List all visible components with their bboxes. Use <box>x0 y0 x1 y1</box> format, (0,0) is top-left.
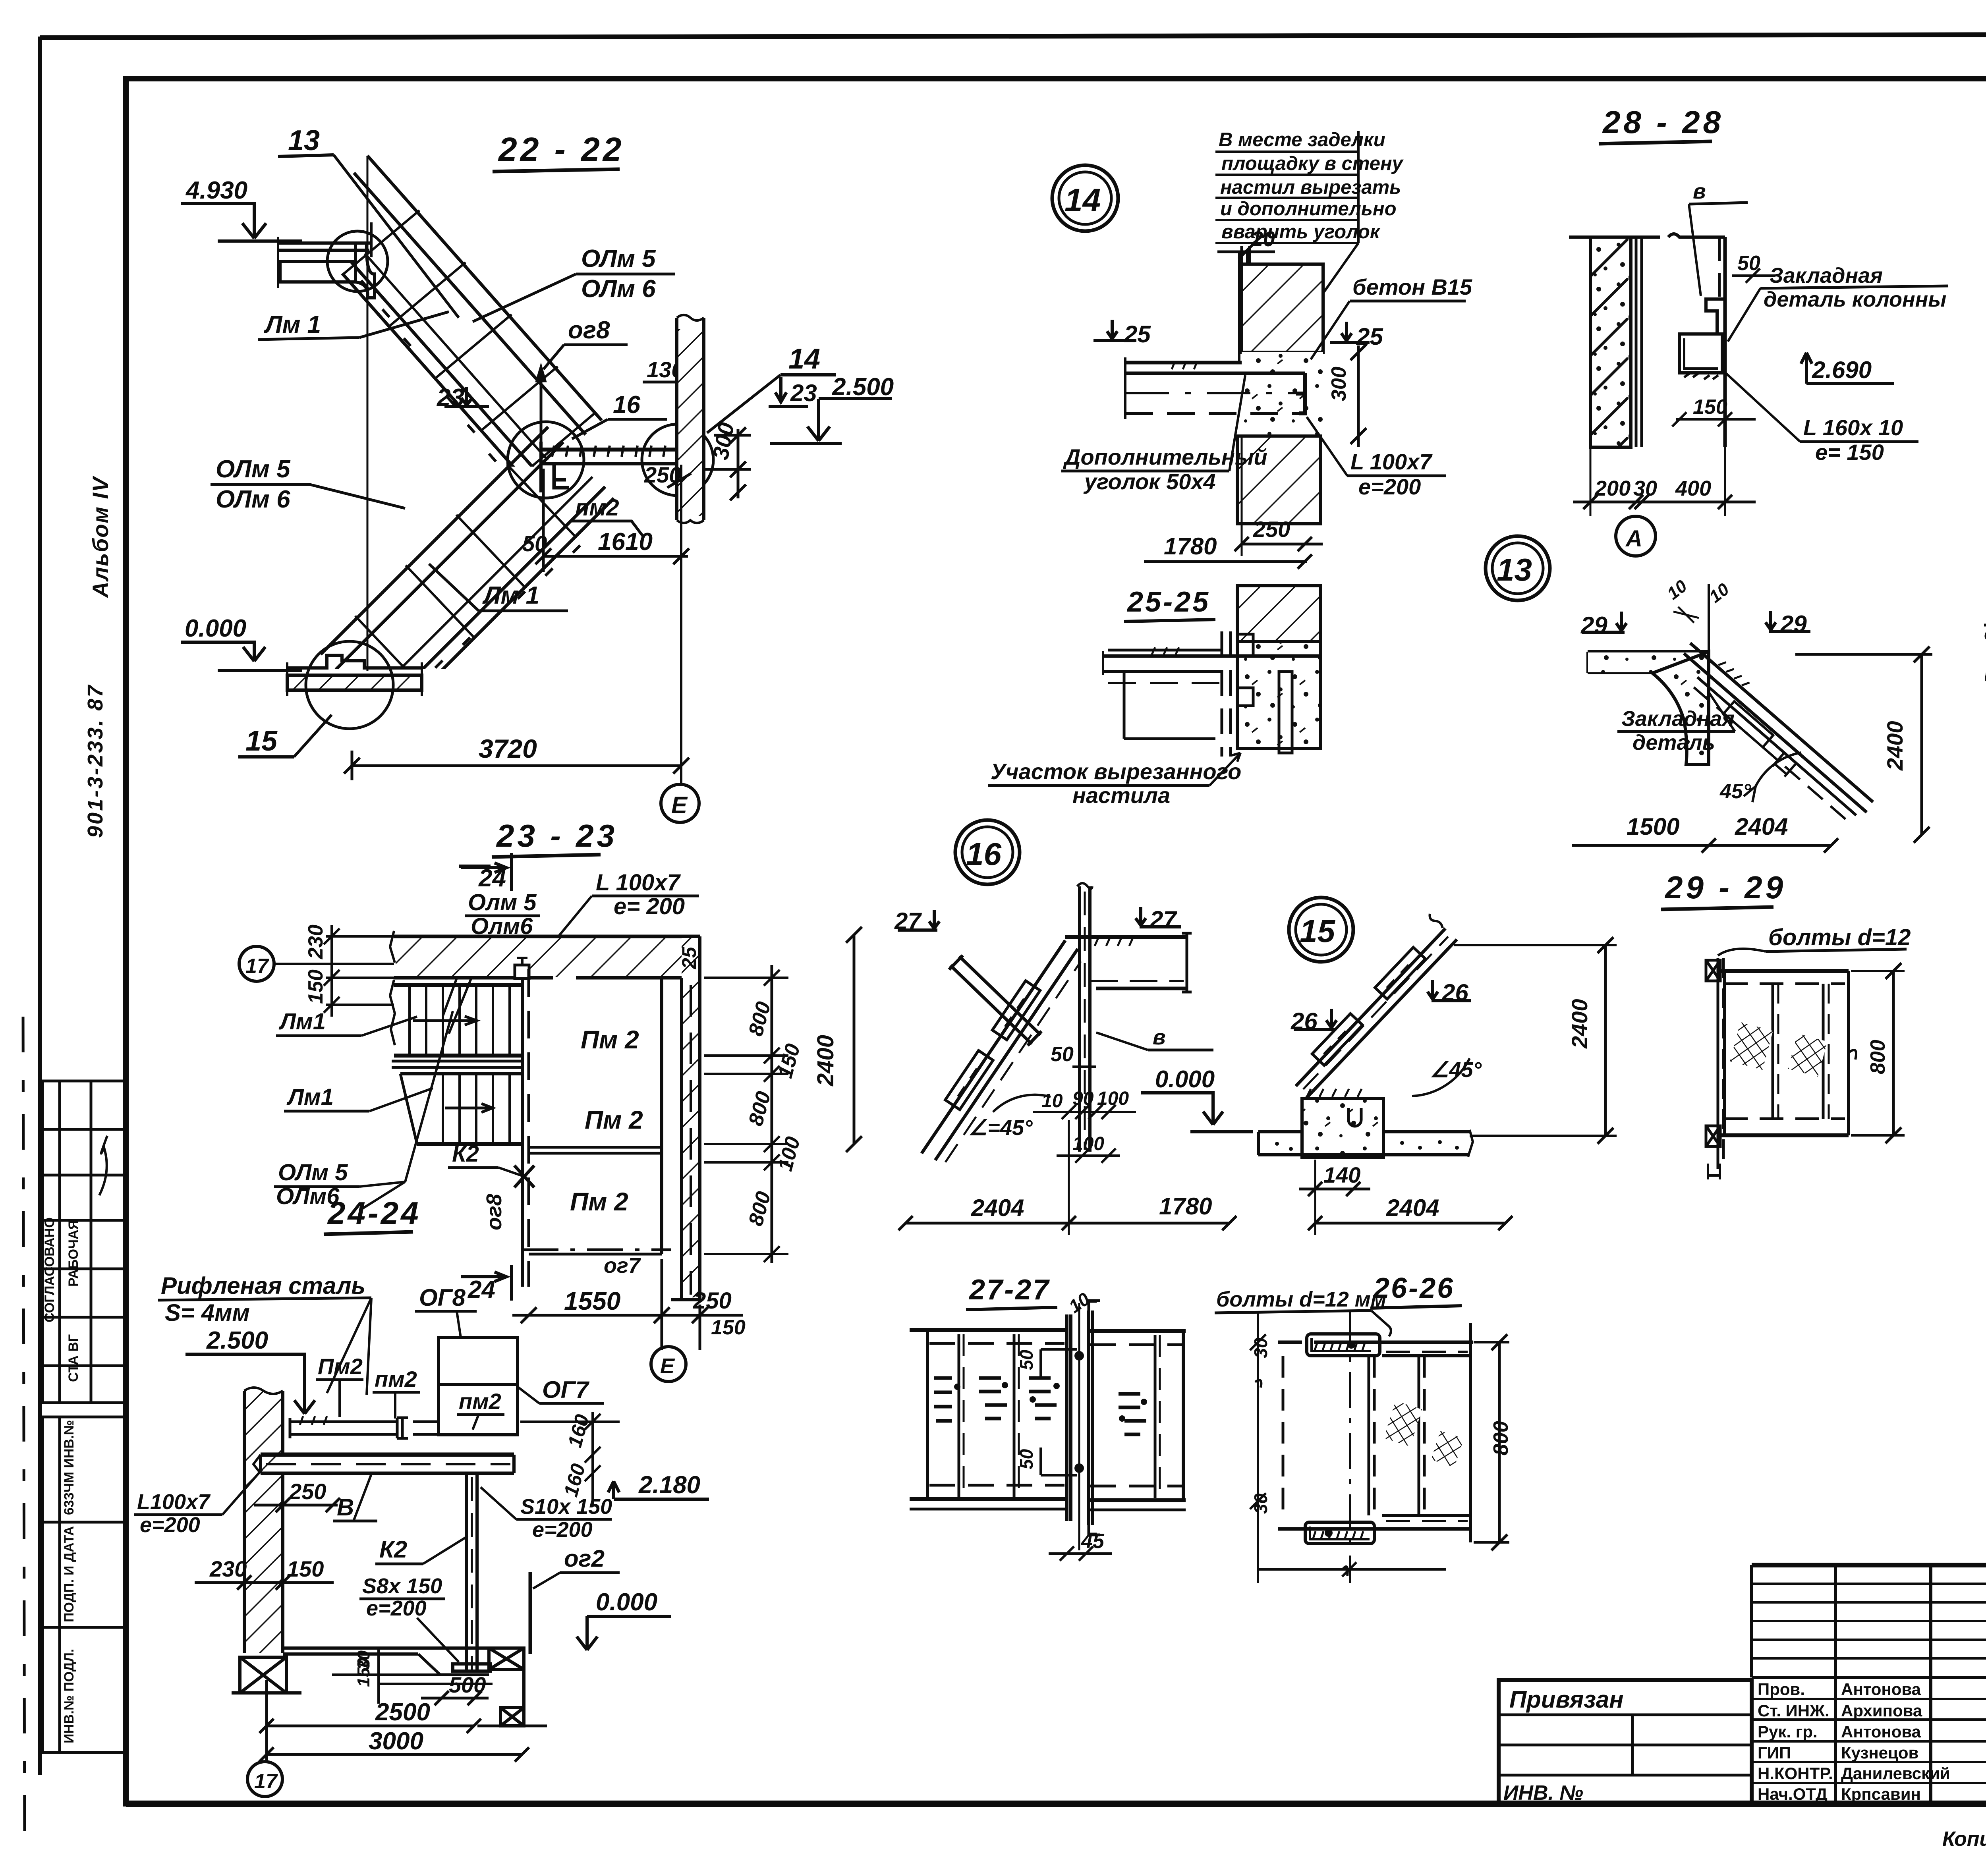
svg-text:СТА ВГ: СТА ВГ <box>66 1334 81 1382</box>
names table rows <box>1752 1676 1986 1679</box>
left panel <box>910 1330 1068 1509</box>
wall strip: hatch top, concrete below <box>1237 586 1321 641</box>
svg-text:1780: 1780 <box>1159 1193 1212 1220</box>
main beam <box>253 1455 514 1473</box>
diagonal stair stringer <box>913 934 1086 1167</box>
node circle 14 <box>1052 165 1118 231</box>
slot clusters <box>934 1375 1146 1434</box>
svg-text:L 160х 10: L 160х 10 <box>1803 415 1903 440</box>
diagonal stringer <box>1279 913 1457 1098</box>
svg-text:1780: 1780 <box>1164 533 1217 560</box>
svg-text:ОЛм 5: ОЛм 5 <box>216 455 291 483</box>
svg-text:30: 30 <box>1250 1493 1271 1514</box>
svg-text:Е: Е <box>671 792 688 818</box>
svg-text:250: 250 <box>1253 517 1290 542</box>
svg-text:болты d=12: болты d=12 <box>1768 924 1911 950</box>
svg-text:140: 140 <box>1323 1162 1360 1187</box>
top beam lines <box>1278 1323 1473 1542</box>
middle double verticals <box>1067 1301 1100 1535</box>
svg-text:площадку в стену: площадку в стену <box>1221 153 1404 174</box>
svg-text:и залить бетоном: и залить бетоном <box>1984 665 1986 686</box>
svg-text:23: 23 <box>790 380 817 406</box>
mid landing lines <box>392 1060 523 1063</box>
note text <box>1984 603 1986 706</box>
svg-text:45: 45 <box>1081 1530 1105 1553</box>
svg-text:Е: Е <box>660 1354 675 1378</box>
svg-text:100: 100 <box>1072 1133 1104 1154</box>
svg-text:Лм 1: Лм 1 <box>482 582 539 609</box>
svg-text:е=200: е=200 <box>532 1518 593 1542</box>
svg-text:В месте заделки: В месте заделки <box>1219 129 1385 151</box>
left margin stamp table upper <box>43 1081 126 1403</box>
floor slab <box>1258 1130 1473 1157</box>
svg-text:50: 50 <box>1016 1349 1037 1370</box>
left margin stamp table lower <box>43 1417 126 1752</box>
svg-text:S10х 150: S10х 150 <box>520 1495 612 1519</box>
svg-text:ОЛм 5: ОЛм 5 <box>581 245 656 272</box>
svg-text:2404: 2404 <box>1386 1195 1439 1221</box>
svg-text:Лм 1: Лм 1 <box>264 311 321 338</box>
svg-text:Пм 2: Пм 2 <box>585 1106 643 1134</box>
svg-text:ОГ7: ОГ7 <box>542 1376 589 1403</box>
svg-text:пм2: пм2 <box>459 1389 501 1414</box>
svg-text:ОЛм 5: ОЛм 5 <box>278 1160 348 1185</box>
svg-text:ограждения прос-: ограждения прос- <box>1984 623 1986 645</box>
axis circle E bottom <box>651 1347 686 1382</box>
svg-text:Дополнительный: Дополнительный <box>1063 444 1267 469</box>
svg-text:е= 200: е= 200 <box>614 894 685 919</box>
svg-text:L 100х7: L 100х7 <box>1350 449 1433 474</box>
cut line vertical through apex <box>367 156 369 671</box>
base block <box>1302 1098 1383 1157</box>
svg-text:13: 13 <box>1497 552 1532 587</box>
svg-text:Данилевский: Данилевский <box>1841 1764 1950 1783</box>
svg-text:2.180: 2.180 <box>638 1471 700 1499</box>
bottom slab <box>283 1648 525 1675</box>
upper thin-row table x4410-5137 <box>1752 1583 1986 1585</box>
axis circle 17 <box>239 946 274 981</box>
svg-text:0.000: 0.000 <box>596 1588 657 1616</box>
svg-text:Альбом IV: Альбом IV <box>88 475 113 598</box>
svg-text:К2: К2 <box>379 1536 407 1563</box>
svg-text:вварить уголок: вварить уголок <box>1221 221 1381 243</box>
svg-text:А: А <box>1625 526 1642 552</box>
svg-text:29: 29 <box>1580 612 1607 639</box>
bent plate <box>1706 299 1725 334</box>
svg-text:S8х 150: S8х 150 <box>362 1574 442 1598</box>
svg-text:2400: 2400 <box>1567 999 1592 1049</box>
svg-text:27-27: 27-27 <box>968 1274 1050 1306</box>
svg-text:25: 25 <box>678 946 700 969</box>
embedded angle box <box>1679 334 1722 373</box>
svg-text:27: 27 <box>1149 906 1177 933</box>
bottom dim line <box>1258 1562 1446 1577</box>
leader 13 to circle <box>334 155 459 318</box>
svg-text:Архипова: Архипова <box>1841 1701 1922 1720</box>
top slab hatched band <box>396 938 682 977</box>
main outline right section <box>126 1565 1986 1804</box>
svg-text:Ст. ИНЖ.: Ст. ИНЖ. <box>1758 1701 1830 1720</box>
svg-text:29: 29 <box>1780 611 1807 637</box>
svg-text:1610: 1610 <box>598 528 653 556</box>
svg-text:26-26: 26-26 <box>1373 1272 1455 1304</box>
cut vertical line <box>1708 584 1710 727</box>
svg-text:Закладная: Закладная <box>1621 707 1735 731</box>
svg-text:20: 20 <box>1251 227 1275 251</box>
svg-text:ИНВ.№ ПОДЛ.: ИНВ.№ ПОДЛ. <box>62 1649 77 1743</box>
svg-text:2400: 2400 <box>1882 721 1907 771</box>
svg-text:15: 15 <box>245 725 278 757</box>
svg-text:200: 200 <box>1594 477 1631 500</box>
svg-text:ПОДП. И ДАТА: ПОДП. И ДАТА <box>62 1526 77 1622</box>
svg-text:30: 30 <box>1250 1338 1271 1358</box>
svg-text:150: 150 <box>287 1556 324 1581</box>
svg-text:ОЛм 6: ОЛм 6 <box>581 275 656 303</box>
upper flight crossing brace <box>948 954 1043 1047</box>
svg-text:L100х7: L100х7 <box>137 1490 211 1514</box>
svg-text:Участок вырезанного: Участок вырезанного <box>991 759 1241 784</box>
svg-text:17: 17 <box>254 1770 278 1793</box>
vertical members <box>1283 1356 1424 1515</box>
svg-text:Пм 2: Пм 2 <box>570 1187 628 1216</box>
wall hatched strip <box>677 329 704 516</box>
svg-text:К2: К2 <box>452 1141 479 1167</box>
wall strip concrete <box>1590 237 1631 447</box>
top connector channel <box>1307 1334 1380 1356</box>
svg-text:150: 150 <box>711 1316 746 1339</box>
svg-text:ог2: ог2 <box>564 1545 605 1572</box>
svg-text:250: 250 <box>289 1479 326 1504</box>
svg-text:25: 25 <box>1124 321 1151 347</box>
svg-text:Олм 5: Олм 5 <box>468 890 537 915</box>
wall bottom hatched <box>1237 436 1321 524</box>
svg-text:16: 16 <box>613 391 640 419</box>
svg-text:ог8: ог8 <box>568 317 610 344</box>
svg-text:Привязан: Привязан <box>1509 1686 1623 1713</box>
svg-text:РАБОЧАЯ: РАБОЧАЯ <box>66 1220 81 1287</box>
upper flight band (railing + stringer) <box>288 154 604 491</box>
svg-text:10: 10 <box>1041 1090 1063 1112</box>
top landing plates <box>278 222 375 298</box>
svg-text:150: 150 <box>354 1658 373 1687</box>
axis circle 17 bottom <box>247 1762 282 1797</box>
node circle 13 <box>1486 536 1550 600</box>
svg-text:0.000: 0.000 <box>1155 1066 1215 1092</box>
svg-text:Крпсавин: Крпсавин <box>1841 1785 1921 1803</box>
ог7 dash-dot line and label <box>523 1249 671 1251</box>
landing beam right <box>1065 933 1192 993</box>
svg-text:деталь колонны: деталь колонны <box>1764 288 1946 311</box>
frame <box>1720 971 1849 1135</box>
svg-text:50: 50 <box>1016 1449 1037 1469</box>
svg-text:2.500: 2.500 <box>206 1327 268 1354</box>
mesh patches <box>1730 1022 1773 1070</box>
svg-text:е= 150: е= 150 <box>1815 440 1884 465</box>
deck plates <box>290 1416 439 1438</box>
svg-text:деталь: деталь <box>1632 731 1715 755</box>
center dash-dot <box>1349 1311 1351 1583</box>
svg-text:23 - 23: 23 - 23 <box>496 818 618 853</box>
scan edge artifact left <box>23 1017 25 1851</box>
svg-text:29 - 29: 29 - 29 <box>1664 870 1786 905</box>
step tick marks on stringer <box>347 280 510 461</box>
svg-text:пм2: пм2 <box>375 1366 417 1392</box>
notch with anchor angle <box>515 965 529 979</box>
svg-text:14: 14 <box>1064 182 1101 218</box>
svg-text:15: 15 <box>1300 913 1335 949</box>
svg-text:Лм1: Лм1 <box>278 1009 326 1035</box>
mid landing detail circle 16 <box>508 422 584 498</box>
svg-text:Пров.: Пров. <box>1758 1680 1805 1698</box>
svg-text:Антонова: Антонова <box>1841 1680 1921 1698</box>
bottom heavy line <box>126 1801 1986 1807</box>
svg-text:24-24: 24-24 <box>327 1195 421 1231</box>
downturn beam trapezoid <box>1652 652 1709 764</box>
svg-text:2.690: 2.690 <box>1812 357 1872 383</box>
svg-text:ОГ8: ОГ8 <box>419 1284 466 1311</box>
svg-text:е=200: е=200 <box>140 1513 200 1537</box>
detail circle 13 <box>327 231 388 291</box>
svg-text:150: 150 <box>304 969 327 1004</box>
right panel <box>1087 1331 1186 1510</box>
vertical post <box>1077 883 1092 1152</box>
axis circle А <box>1616 516 1656 556</box>
svg-text:300: 300 <box>1327 367 1350 401</box>
vertical beam line + dashed ог8 <box>521 978 524 1287</box>
left connectors <box>1706 958 1723 1179</box>
svg-text:Пм 2: Пм 2 <box>581 1025 639 1054</box>
column K2 <box>453 1473 491 1672</box>
svg-text:Закладная: Закладная <box>1770 264 1883 288</box>
svg-text:400: 400 <box>1675 477 1711 500</box>
node circle 16 <box>955 820 1020 884</box>
beam channel <box>1125 357 1305 419</box>
top line <box>1569 234 1725 237</box>
svg-text:22 - 22: 22 - 22 <box>498 131 625 168</box>
svg-text:4.930: 4.930 <box>185 177 247 204</box>
column dashed + post <box>1124 631 1292 757</box>
svg-text:2400: 2400 <box>813 1035 838 1087</box>
bottom landing <box>287 655 422 696</box>
svg-text:СОГЛАСОВАНО: СОГЛАСОВАНО <box>42 1217 57 1322</box>
note text box <box>1219 129 1404 243</box>
connection plates <box>945 1050 993 1110</box>
mesh patches <box>1384 1401 1422 1447</box>
svg-text:28 - 28: 28 - 28 <box>1602 104 1724 140</box>
right wall strip <box>682 938 700 1297</box>
svg-text:∠=45°: ∠=45° <box>968 1116 1033 1140</box>
svg-text:1550: 1550 <box>564 1287 620 1315</box>
svg-text:в: в <box>1693 179 1706 203</box>
landing beam <box>1103 647 1321 683</box>
Пм2 cells and labels <box>529 978 662 1254</box>
diagonal stringers <box>1665 636 1881 833</box>
svg-text:13: 13 <box>288 125 320 156</box>
wall concrete middle <box>1242 352 1323 436</box>
node circle 15 <box>1289 897 1353 962</box>
vertical line to axis E <box>680 465 682 784</box>
svg-text:Рук. гр.: Рук. гр. <box>1758 1722 1818 1741</box>
svg-text:901-3-233. 87: 901-3-233. 87 <box>83 684 107 838</box>
lower flight plan <box>400 1074 523 1144</box>
svg-text:ГИП: ГИП <box>1758 1743 1791 1762</box>
left wall hatched <box>244 1391 283 1653</box>
svg-text:25: 25 <box>1356 323 1383 350</box>
svg-text:S= 4мм: S= 4мм <box>165 1299 250 1326</box>
names <box>1758 1680 1950 1803</box>
svg-text:16: 16 <box>966 836 1001 872</box>
slab with concrete <box>1588 652 1709 673</box>
mid landing beam пм2 <box>541 442 692 492</box>
wall top hatched <box>1242 264 1323 352</box>
svg-text:ог8: ог8 <box>482 1194 506 1230</box>
svg-text:2500: 2500 <box>375 1698 430 1726</box>
svg-text:Антонова: Антонова <box>1841 1722 1921 1741</box>
svg-text:3000: 3000 <box>369 1727 423 1755</box>
svg-text:17: 17 <box>245 955 269 978</box>
svg-text:Копировал: Антипова: Копировал: Антипова <box>1942 1828 1986 1851</box>
crossed boxes <box>232 1648 547 1726</box>
svg-text:0.000: 0.000 <box>185 615 246 642</box>
svg-text:3720: 3720 <box>479 734 537 763</box>
svg-text:Нач.ОТД: Нач.ОТД <box>1758 1785 1828 1803</box>
svg-text:Пм2: Пм2 <box>318 1354 363 1379</box>
svg-text:настил вырезать: настил вырезать <box>1220 177 1401 198</box>
wall detail circle <box>642 424 713 496</box>
svg-text:Кузнецов: Кузнецов <box>1841 1743 1918 1762</box>
svg-text:в: в <box>1153 1025 1166 1049</box>
svg-text:230: 230 <box>304 924 327 959</box>
svg-text:2.500: 2.500 <box>832 373 894 401</box>
left vertical dim line with breaks <box>1250 1311 1266 1583</box>
svg-text:Рифленая сталь: Рифленая сталь <box>161 1272 365 1299</box>
upper flight plan <box>390 980 523 1056</box>
svg-text:болты d=12 мм: болты d=12 мм <box>1216 1287 1387 1311</box>
svg-text:Н.КОНТР.: Н.КОНТР. <box>1758 1764 1833 1783</box>
svg-text:е=200: е=200 <box>1358 474 1421 499</box>
svg-text:14: 14 <box>788 343 820 375</box>
bottom connector + beam lines <box>1278 1515 1470 1544</box>
svg-text:25-25: 25-25 <box>1126 586 1210 618</box>
svg-text:45°: 45° <box>1719 780 1752 803</box>
svg-text:бетон В15: бетон В15 <box>1352 274 1472 299</box>
svg-text:633ЧМ ИНВ.№: 633ЧМ ИНВ.№ <box>62 1420 77 1515</box>
svg-text:150: 150 <box>1693 396 1727 419</box>
svg-text:ог7: ог7 <box>604 1254 641 1278</box>
svg-text:Лм1: Лм1 <box>286 1084 334 1110</box>
svg-text:2404: 2404 <box>971 1195 1024 1221</box>
svg-text:2404: 2404 <box>1735 813 1788 840</box>
lower flight band <box>319 425 623 730</box>
svg-text:ИНВ. №: ИНВ. № <box>1503 1781 1583 1805</box>
svg-text:24: 24 <box>468 1276 495 1303</box>
svg-text:50: 50 <box>1051 1043 1074 1066</box>
svg-text:и дополнительно: и дополнительно <box>1220 198 1397 220</box>
svg-text:уголок 50х4: уголок 50х4 <box>1083 469 1216 494</box>
svg-text:800: 800 <box>1866 1040 1889 1074</box>
column line <box>1723 237 1727 447</box>
svg-text:800: 800 <box>1489 1421 1513 1455</box>
svg-text:L 100х7: L 100х7 <box>596 870 681 896</box>
svg-text:230: 230 <box>209 1556 247 1581</box>
svg-text:1500: 1500 <box>1627 813 1679 840</box>
axis circle E <box>661 784 699 822</box>
привязан box <box>1499 1680 1752 1804</box>
svg-text:ОЛм 6: ОЛм 6 <box>216 486 290 513</box>
